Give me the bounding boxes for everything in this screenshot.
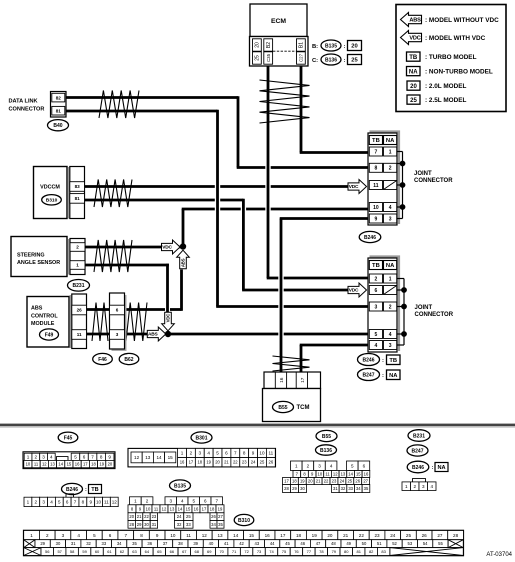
svg-text:83: 83 xyxy=(75,184,81,189)
twisted pair symbol on ABS wires right of connector F46 xyxy=(126,303,147,342)
ECM connector label C: B136 : 25 xyxy=(312,54,362,65)
svg-text:17: 17 xyxy=(202,506,207,511)
svg-text:28: 28 xyxy=(284,486,289,491)
inline connector F46/B62 xyxy=(110,293,125,349)
svg-text:7: 7 xyxy=(234,451,237,456)
svg-text:14: 14 xyxy=(178,506,183,511)
joint connector B246 bus bracket xyxy=(402,152,404,219)
svg-text:14: 14 xyxy=(233,533,239,538)
svg-text:32: 32 xyxy=(177,522,182,527)
svg-text:15: 15 xyxy=(67,462,72,467)
svg-text:F49: F49 xyxy=(45,332,54,338)
svg-text:2: 2 xyxy=(307,463,310,468)
svg-text:69: 69 xyxy=(207,549,212,554)
svg-text:B1: B1 xyxy=(299,42,305,48)
svg-text:2: 2 xyxy=(146,498,149,503)
wire junction A up to joint connector B246 pin TB10 xyxy=(182,209,368,247)
svg-text:43: 43 xyxy=(255,541,260,546)
svg-text:42: 42 xyxy=(239,541,244,546)
joint connector B246/B247 pin row TB3 xyxy=(369,302,382,311)
svg-text:5: 5 xyxy=(58,500,61,505)
connector B231 label (bottom) xyxy=(408,430,430,442)
svg-text:4: 4 xyxy=(77,533,80,538)
svg-text:62: 62 xyxy=(120,549,125,554)
inline connector pin 6 xyxy=(110,305,125,315)
svg-text:7: 7 xyxy=(375,149,378,155)
svg-text:6: 6 xyxy=(363,463,366,468)
svg-text:4: 4 xyxy=(207,451,210,456)
svg-text:34: 34 xyxy=(117,541,122,546)
connector B55 label xyxy=(273,401,294,412)
legend TB box : TURBO MODEL xyxy=(407,52,477,61)
svg-text:7: 7 xyxy=(74,500,77,505)
svg-text:9: 9 xyxy=(156,533,159,538)
svg-text:9: 9 xyxy=(252,451,255,456)
svg-text:B231: B231 xyxy=(413,433,425,439)
svg-text:6: 6 xyxy=(83,454,86,459)
VDCCM strip shadow xyxy=(67,167,69,219)
svg-text:3: 3 xyxy=(199,451,202,456)
svg-text:68: 68 xyxy=(195,549,200,554)
connector B55 label xyxy=(316,430,337,441)
svg-text:2: 2 xyxy=(34,500,37,505)
svg-text:19: 19 xyxy=(312,533,318,538)
data link connector strip xyxy=(51,92,67,118)
svg-text:ABS: ABS xyxy=(409,18,421,24)
svg-text:25: 25 xyxy=(410,98,417,104)
joint connector B246 body xyxy=(368,133,397,225)
svg-text:57: 57 xyxy=(57,549,62,554)
svg-text:C27: C27 xyxy=(299,53,304,62)
svg-text:B135: B135 xyxy=(325,43,337,49)
connector F45 label xyxy=(58,432,78,443)
svg-text:4: 4 xyxy=(330,463,333,468)
connector B231 label xyxy=(68,280,90,292)
svg-text:TB: TB xyxy=(372,138,380,144)
svg-text:STEERING: STEERING xyxy=(17,252,45,258)
svg-text:VDC: VDC xyxy=(162,245,172,251)
svg-text:81: 81 xyxy=(75,196,81,201)
svg-text:20: 20 xyxy=(255,42,261,48)
svg-text:44: 44 xyxy=(270,541,275,546)
svg-text:2: 2 xyxy=(190,451,193,456)
ECM block xyxy=(250,4,307,37)
svg-text:3: 3 xyxy=(116,332,119,337)
svg-text:35: 35 xyxy=(218,522,223,527)
svg-text:13: 13 xyxy=(145,455,151,460)
joint connector B246/B247 header TB xyxy=(369,261,382,270)
ABS arrow into junction B xyxy=(147,327,166,341)
joint connector B246 pin row TB11 xyxy=(369,181,382,190)
svg-text:: MODEL WITH VDC: : MODEL WITH VDC xyxy=(425,35,486,42)
svg-text:16: 16 xyxy=(364,472,369,477)
svg-text:28: 28 xyxy=(453,533,459,538)
connector B247 label (bottom) xyxy=(407,445,428,456)
svg-text:9: 9 xyxy=(108,454,111,459)
svg-text:VDC: VDC xyxy=(409,36,420,42)
twisted pair symbol on ABS wires left of connector F46 xyxy=(92,303,108,342)
svg-text:76: 76 xyxy=(294,549,299,554)
svg-text::: : xyxy=(382,373,384,379)
svg-text:8: 8 xyxy=(82,500,85,505)
svg-text:1: 1 xyxy=(389,276,392,282)
svg-text::: : xyxy=(344,44,346,50)
svg-text:15: 15 xyxy=(186,506,191,511)
svg-text:B247: B247 xyxy=(363,372,375,378)
svg-text:4: 4 xyxy=(389,205,392,211)
svg-text:8: 8 xyxy=(243,451,246,456)
svg-text:6: 6 xyxy=(116,308,119,313)
wire junction B to joint connector B246/B247 pin TB5 xyxy=(168,333,368,336)
connector B135 pin grid xyxy=(130,497,142,505)
svg-text:3: 3 xyxy=(42,500,45,505)
svg-text:70: 70 xyxy=(219,549,224,554)
svg-text:B135: B135 xyxy=(174,483,186,489)
connector B310 label (bottom) xyxy=(234,514,254,525)
svg-text:6: 6 xyxy=(109,533,112,538)
svg-text:30: 30 xyxy=(56,541,61,546)
svg-text:26: 26 xyxy=(269,460,274,465)
svg-text:32: 32 xyxy=(86,541,91,546)
ECM pin 25 xyxy=(253,52,262,64)
svg-text:4: 4 xyxy=(375,343,378,349)
connector B246 : TB label xyxy=(358,354,401,366)
svg-text:B246: B246 xyxy=(363,357,375,363)
joint connector B246/B247 body xyxy=(368,258,397,352)
svg-text:17: 17 xyxy=(284,479,289,484)
svg-text:B55: B55 xyxy=(322,434,331,440)
svg-text:4: 4 xyxy=(430,484,433,489)
svg-text:18: 18 xyxy=(197,460,202,465)
svg-text:22: 22 xyxy=(144,514,149,519)
ECM strip row divider xyxy=(273,50,297,52)
svg-text:4: 4 xyxy=(50,500,53,505)
svg-text:12: 12 xyxy=(112,500,118,505)
svg-text:58: 58 xyxy=(70,549,75,554)
svg-text:1: 1 xyxy=(134,498,137,503)
svg-text:MODULE: MODULE xyxy=(31,321,55,327)
svg-text:10: 10 xyxy=(146,506,151,511)
TCM connector strip xyxy=(264,372,321,389)
svg-text:NA: NA xyxy=(437,465,445,471)
svg-text:27: 27 xyxy=(437,533,443,538)
svg-text:24: 24 xyxy=(340,479,345,484)
svg-text:14: 14 xyxy=(58,462,63,467)
svg-text:79: 79 xyxy=(332,549,337,554)
svg-text:12: 12 xyxy=(333,472,338,477)
svg-text:18: 18 xyxy=(210,506,215,511)
twisted pair symbol on ECM wires xyxy=(260,80,310,123)
wire VDCCM pin83 to joint connector B246 pin TB11 xyxy=(85,185,350,188)
svg-text:5: 5 xyxy=(74,454,77,459)
svg-text:14: 14 xyxy=(348,472,353,477)
VDC arrow into junction A xyxy=(162,240,181,254)
svg-text:ABS: ABS xyxy=(181,258,186,267)
connector B136 label xyxy=(316,445,337,455)
svg-text:CONTROL: CONTROL xyxy=(31,313,58,319)
svg-text:12: 12 xyxy=(134,455,140,460)
svg-text:31: 31 xyxy=(152,522,157,527)
svg-text:B310: B310 xyxy=(46,198,58,204)
svg-text:15: 15 xyxy=(249,533,255,538)
svg-text:83: 83 xyxy=(381,549,386,554)
svg-text:10: 10 xyxy=(170,533,176,538)
svg-text:25: 25 xyxy=(255,55,261,61)
svg-text:29: 29 xyxy=(137,522,142,527)
connector B40 xyxy=(48,120,69,131)
connector F49 label xyxy=(40,329,59,340)
svg-text:13: 13 xyxy=(217,533,223,538)
connector B135 label xyxy=(170,480,191,491)
svg-text:19: 19 xyxy=(206,460,211,465)
wire joint connector B246 pin TB9 down to TCM pin16 xyxy=(280,219,368,375)
svg-text:C35: C35 xyxy=(266,53,271,62)
joint connector B246/B247 header NA xyxy=(384,261,397,270)
connector B301 label xyxy=(191,432,212,443)
wire ECM pin B2/C35 to joint connector B246/B247 pin TB2 xyxy=(267,66,368,278)
svg-text:16: 16 xyxy=(194,506,199,511)
junction B node xyxy=(165,331,171,337)
svg-text:2: 2 xyxy=(76,245,79,250)
svg-text:20: 20 xyxy=(215,460,220,465)
connector B246 NA pin grid xyxy=(413,479,426,482)
connector B246 : TB caption (bottom) xyxy=(62,483,102,494)
svg-text:19: 19 xyxy=(99,462,104,467)
svg-text:37: 37 xyxy=(163,541,168,546)
svg-text:B301: B301 xyxy=(196,435,208,441)
svg-text:CONNECTOR: CONNECTOR xyxy=(9,106,45,112)
joint connector B246/B247 pin row TB5 xyxy=(369,330,382,339)
svg-text:ECM: ECM xyxy=(271,18,286,25)
wire VDCCM pin81 to joint connector B246/B247 pin TB6 xyxy=(85,199,350,290)
svg-text:VDC: VDC xyxy=(349,184,359,190)
svg-text:25: 25 xyxy=(186,514,191,519)
svg-text:5: 5 xyxy=(93,533,96,538)
svg-text:1: 1 xyxy=(76,263,79,268)
ABS arrow below junction A xyxy=(177,250,190,269)
svg-text:77: 77 xyxy=(307,549,312,554)
svg-text:10: 10 xyxy=(373,205,379,211)
svg-text:72: 72 xyxy=(244,549,249,554)
svg-text:8: 8 xyxy=(375,166,378,172)
svg-text:ANGLE SENSOR: ANGLE SENSOR xyxy=(17,260,60,266)
ABS control module block xyxy=(27,297,69,348)
data link connector pin 82 xyxy=(52,93,65,102)
ECM pin C27 xyxy=(297,52,306,64)
joint connector B246 pin row TB10 xyxy=(369,203,382,212)
steering angle sensor pin 1 xyxy=(70,261,85,270)
legend 25 box : 2.5L MODEL xyxy=(407,95,467,104)
svg-text:34: 34 xyxy=(356,486,361,491)
svg-text:81: 81 xyxy=(56,108,62,113)
svg-text:11: 11 xyxy=(104,500,109,505)
svg-text:74: 74 xyxy=(269,549,274,554)
svg-text:75: 75 xyxy=(282,549,287,554)
svg-text:17: 17 xyxy=(83,462,88,467)
svg-text:71: 71 xyxy=(232,549,237,554)
svg-text:6: 6 xyxy=(225,451,228,456)
connector B310 label xyxy=(42,195,62,205)
svg-text:47: 47 xyxy=(316,541,321,546)
ABS connector strip xyxy=(72,294,87,349)
svg-text:51: 51 xyxy=(377,541,382,546)
connector F45 pin grid xyxy=(23,452,115,469)
VDCCM block xyxy=(34,167,68,219)
svg-text:18: 18 xyxy=(91,462,96,467)
svg-text:12: 12 xyxy=(162,506,167,511)
svg-text:36: 36 xyxy=(147,541,152,546)
svg-text:41: 41 xyxy=(224,541,229,546)
svg-text:49: 49 xyxy=(346,541,351,546)
legend box xyxy=(396,5,506,112)
svg-text:16: 16 xyxy=(180,460,185,465)
svg-text:21: 21 xyxy=(224,460,229,465)
svg-text:DATA LINK: DATA LINK xyxy=(9,99,38,105)
svg-text:5: 5 xyxy=(351,463,354,468)
svg-text:3: 3 xyxy=(389,216,392,222)
svg-text:20: 20 xyxy=(351,44,357,50)
svg-text:26: 26 xyxy=(211,514,216,519)
connector B62 label xyxy=(119,353,139,364)
svg-text:11: 11 xyxy=(268,451,273,456)
svg-text:16: 16 xyxy=(75,462,80,467)
svg-text:VDC: VDC xyxy=(166,313,171,323)
ECM connector strip xyxy=(250,37,309,67)
steering angle sensor connector strip xyxy=(70,239,85,275)
svg-text:46: 46 xyxy=(300,541,305,546)
svg-text:81: 81 xyxy=(357,549,362,554)
svg-text:20: 20 xyxy=(108,462,113,467)
svg-text:22: 22 xyxy=(359,533,365,538)
svg-text:26: 26 xyxy=(355,479,360,484)
svg-text:21: 21 xyxy=(316,479,321,484)
svg-text:1: 1 xyxy=(295,463,298,468)
wire joint connector B246/B247 pin TB4 down to TCM pin17 xyxy=(300,345,368,374)
connector F46 label xyxy=(93,353,113,364)
svg-text:63: 63 xyxy=(132,549,137,554)
wire DLC pin82 to joint connector B246 pin TB8 xyxy=(66,96,368,167)
svg-text:VDCCM: VDCCM xyxy=(40,185,60,191)
svg-text:ABS: ABS xyxy=(148,332,159,338)
svg-text:32: 32 xyxy=(341,486,346,491)
svg-text:59: 59 xyxy=(82,549,87,554)
svg-text:27: 27 xyxy=(363,479,368,484)
svg-text:13: 13 xyxy=(170,506,175,511)
svg-text:11: 11 xyxy=(154,506,159,511)
svg-text:1: 1 xyxy=(389,149,392,155)
svg-text:26: 26 xyxy=(77,308,83,313)
joint connector B246/B247 bus bracket xyxy=(403,279,405,346)
svg-text:15: 15 xyxy=(356,472,361,477)
svg-text:2: 2 xyxy=(375,276,378,282)
joint connector B246 header TB xyxy=(369,136,382,145)
connector B310 pin grid xyxy=(24,530,464,555)
svg-text:82: 82 xyxy=(369,549,374,554)
svg-text:34: 34 xyxy=(211,522,216,527)
svg-text:17: 17 xyxy=(300,377,306,383)
svg-text:13: 13 xyxy=(50,462,55,467)
svg-text::: : xyxy=(382,358,384,364)
inline connector pin 3 xyxy=(110,330,125,340)
joint connector B246 header NA xyxy=(384,136,397,145)
svg-text:1: 1 xyxy=(405,484,408,489)
svg-text:53: 53 xyxy=(408,541,413,546)
svg-text:2: 2 xyxy=(389,304,392,310)
svg-text:B2: B2 xyxy=(266,42,272,48)
svg-text:6: 6 xyxy=(375,288,378,294)
svg-text:ABS: ABS xyxy=(31,306,43,312)
svg-text:20: 20 xyxy=(308,479,313,484)
svg-text:19: 19 xyxy=(300,479,305,484)
svg-text:AT-03704: AT-03704 xyxy=(486,552,512,558)
svg-text:B246: B246 xyxy=(412,465,424,471)
svg-text:24: 24 xyxy=(390,533,396,538)
connector B246 : NA caption (bottom) xyxy=(407,461,448,473)
joint connector B246/B247 pin row TB2 xyxy=(369,274,382,283)
wire ABS control module pin11 to junction B xyxy=(86,333,149,336)
TCM block xyxy=(263,389,321,422)
svg-text:78: 78 xyxy=(319,549,324,554)
joint connector B246 shadow xyxy=(370,132,400,225)
svg-text:B:: B: xyxy=(312,44,318,50)
svg-text:NA: NA xyxy=(389,373,398,379)
ECM pin C35 xyxy=(264,52,273,64)
wire ECM pin B1/C27 to joint connector B246 pin TB7 xyxy=(300,66,368,153)
svg-text::: : xyxy=(432,465,434,471)
svg-text:4: 4 xyxy=(50,454,53,459)
svg-text:8: 8 xyxy=(140,533,143,538)
svg-text:18: 18 xyxy=(296,533,302,538)
svg-text:B136: B136 xyxy=(320,448,332,454)
svg-text:20: 20 xyxy=(327,533,333,538)
section divider xyxy=(0,424,515,427)
svg-text:7: 7 xyxy=(125,533,128,538)
svg-text:11: 11 xyxy=(186,533,191,538)
VDC arrow into junction B xyxy=(162,312,175,331)
svg-text:48: 48 xyxy=(331,541,336,546)
svg-text:66: 66 xyxy=(170,549,175,554)
joint connector B246/B247 shadow xyxy=(370,257,400,352)
svg-text:1: 1 xyxy=(181,451,184,456)
svg-text:21: 21 xyxy=(137,514,142,519)
svg-text::: : xyxy=(344,58,346,64)
svg-text:25: 25 xyxy=(347,479,352,484)
svg-text:29: 29 xyxy=(292,486,297,491)
svg-text:20: 20 xyxy=(129,514,134,519)
svg-text:1: 1 xyxy=(30,533,33,538)
svg-text:11: 11 xyxy=(77,332,82,337)
svg-text:6: 6 xyxy=(204,498,207,503)
ECM pin B1 xyxy=(297,39,306,51)
ECM pin 20 xyxy=(253,39,262,51)
svg-text:2: 2 xyxy=(413,484,416,489)
svg-text:33: 33 xyxy=(186,522,191,527)
junction A node xyxy=(180,243,186,249)
svg-text:18: 18 xyxy=(292,479,297,484)
svg-text:25: 25 xyxy=(406,533,412,538)
svg-text:11: 11 xyxy=(373,183,379,189)
svg-text:VDC: VDC xyxy=(349,288,359,294)
svg-text:13: 13 xyxy=(341,472,346,477)
svg-text:: TURBO MODEL: : TURBO MODEL xyxy=(425,54,477,61)
svg-text:14: 14 xyxy=(156,455,162,460)
twisted pair symbol on VDCCM wires xyxy=(94,180,132,208)
svg-text:2: 2 xyxy=(389,166,392,172)
svg-text:4: 4 xyxy=(389,332,392,338)
svg-text:55: 55 xyxy=(438,541,443,546)
svg-text:B62: B62 xyxy=(124,357,133,363)
svg-text:11: 11 xyxy=(34,462,39,467)
